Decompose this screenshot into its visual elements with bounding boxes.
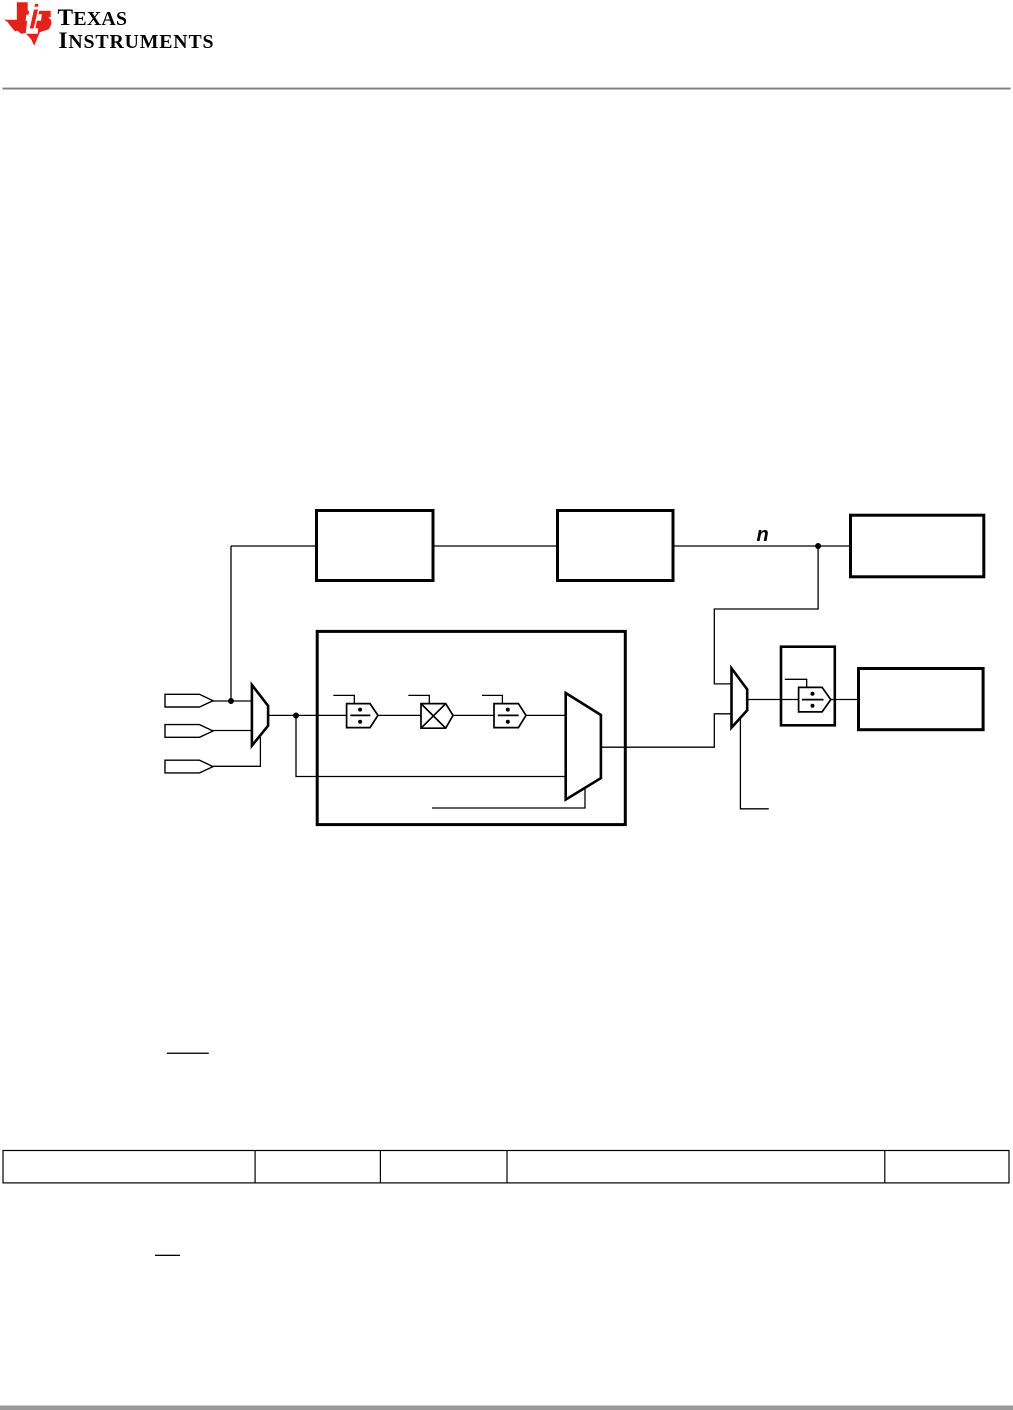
svg-text:TEXAS: TEXAS [58, 5, 128, 31]
svg-text:n: n [757, 524, 769, 546]
svg-text:INSTRUMENTS: INSTRUMENTS [59, 28, 214, 54]
